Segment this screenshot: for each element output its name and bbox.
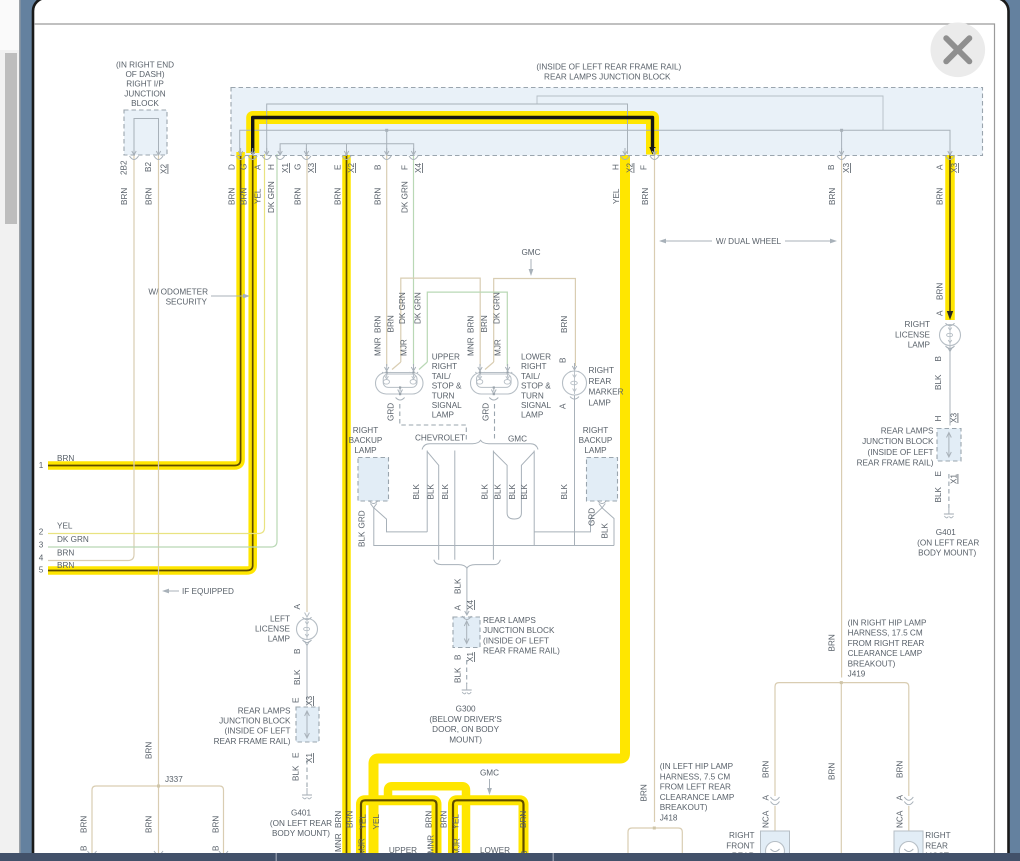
svg-text:A: A xyxy=(293,604,302,610)
right rear junction block bus xyxy=(948,434,950,457)
svg-text:B: B xyxy=(454,654,463,660)
svg-text:BRN: BRN xyxy=(145,188,154,205)
svg-text:X1: X1 xyxy=(466,652,475,662)
svg-text:BLK: BLK xyxy=(454,667,463,683)
svg-text:REAR: REAR xyxy=(925,841,948,850)
svg-text:DK GRN: DK GRN xyxy=(57,535,89,544)
svg-text:X3: X3 xyxy=(842,163,851,173)
svg-text:(IN LEFT HIP LAMP: (IN LEFT HIP LAMP xyxy=(660,762,734,771)
wire: BRN pin G/X3 down to left license lamp xyxy=(306,154,308,612)
svg-text:BLK: BLK xyxy=(293,669,302,685)
svg-text:GMC: GMC xyxy=(521,248,540,257)
svg-text:MNR: MNR xyxy=(427,835,436,854)
wire: BRN pin B down to UPPER lamp MNR xyxy=(386,154,388,366)
annotation: GMC arrow (top) xyxy=(530,259,532,271)
svg-text:RIGHT: RIGHT xyxy=(353,426,378,435)
svg-text:BRN: BRN xyxy=(57,454,74,463)
svg-text:FROM LEFT REAR: FROM LEFT REAR xyxy=(660,783,731,792)
svg-text:RIGHT: RIGHT xyxy=(521,362,546,371)
I/P junction block interior bus xyxy=(134,119,159,155)
svg-text:BLK: BLK xyxy=(934,486,943,502)
rear lamps junction block (top, dashed border) xyxy=(231,88,983,156)
svg-text:MNR: MNR xyxy=(334,833,343,852)
svg-text:YEL: YEL xyxy=(359,814,368,830)
svg-text:TURN: TURN xyxy=(521,391,544,400)
BLK wire from brace to center junction block xyxy=(466,568,468,608)
wires below bottom-right lamp connectors xyxy=(774,806,776,831)
svg-text:B: B xyxy=(293,648,302,654)
svg-text:REAR FRAME RAIL): REAR FRAME RAIL) xyxy=(483,647,560,656)
brace CHEVROLET/GMC (pointing up) xyxy=(422,440,538,449)
svg-text:F: F xyxy=(640,165,649,170)
svg-text:A: A xyxy=(896,795,905,801)
svg-text:REAR LAMPS: REAR LAMPS xyxy=(483,616,536,625)
svg-text:DK GRN: DK GRN xyxy=(493,292,502,324)
highlight: YEL wire pin H (right) down and across to UPPER lamp area xyxy=(374,155,626,854)
svg-text:BLK: BLK xyxy=(292,765,301,781)
svg-text:2B2: 2B2 xyxy=(120,160,129,175)
svg-text:H: H xyxy=(267,164,276,170)
wire: CHEVROLET variant BRN box xyxy=(401,278,480,366)
svg-text:X2: X2 xyxy=(160,164,169,174)
NCA connectors xyxy=(771,797,780,800)
marker lamp A wire down to BLK bus xyxy=(574,394,576,546)
core: BRN wire G / exit 5 xyxy=(48,155,253,571)
node J337 xyxy=(157,785,160,788)
pin connectors, I/P junction block xyxy=(133,148,135,154)
svg-text:REAR: REAR xyxy=(589,377,612,386)
svg-text:GRD: GRD xyxy=(482,403,491,421)
svg-text:B: B xyxy=(827,164,836,170)
pin connectors, top junction block xyxy=(240,148,242,154)
svg-text:LEFT: LEFT xyxy=(270,615,290,624)
svg-text:BACKUP: BACKUP xyxy=(579,436,613,445)
svg-text:BRN: BRN xyxy=(896,761,905,778)
svg-text:DK GRN: DK GRN xyxy=(400,181,409,213)
left rear junction block bus xyxy=(306,712,308,737)
junction block interior bus L1 (A to H-right) xyxy=(267,104,628,154)
svg-text:B: B xyxy=(212,845,221,851)
backup lamp right GRD wire xyxy=(602,508,614,546)
svg-text:STOP &: STOP & xyxy=(521,382,551,391)
right rear junction block (dashed border) xyxy=(937,429,961,462)
svg-text:RIGHT: RIGHT xyxy=(729,831,754,840)
wire: YEL pin A to exit 2 xyxy=(48,154,265,534)
GRD dashed wire LOWER lamp xyxy=(494,404,496,441)
svg-text:W/ DUAL WHEEL: W/ DUAL WHEEL xyxy=(716,237,782,246)
center rear junction block (fill) xyxy=(453,617,480,648)
browser scrollbar track (left strip) xyxy=(0,0,21,861)
right backup lamp right (fill) xyxy=(587,458,618,502)
highlight: BRN wire pin G down to exit 5 xyxy=(48,155,253,571)
scrollbar thumb xyxy=(5,53,17,224)
svg-text:B: B xyxy=(559,357,568,363)
core: BRN wire D / exit 1 xyxy=(48,154,241,466)
svg-text:LAMP: LAMP xyxy=(589,398,612,407)
svg-text:BRN: BRN xyxy=(480,315,489,332)
svg-text:X3: X3 xyxy=(305,696,314,706)
svg-text:BRN: BRN xyxy=(560,316,569,333)
svg-text:BLK: BLK xyxy=(508,483,517,499)
junction block interior bus L3 (H to F) xyxy=(280,144,414,154)
dashed BLK wire to ground G300 xyxy=(466,660,468,684)
svg-text:IF EQUIPPED: IF EQUIPPED xyxy=(182,587,234,596)
lamp: RIGHT LICENSE LAMP xyxy=(940,325,961,346)
svg-text:5: 5 xyxy=(39,566,44,575)
close button xyxy=(931,23,986,78)
wire: DK GRN pin F/X4 down to UPPER lamp MJR xyxy=(413,154,415,366)
svg-text:X3: X3 xyxy=(950,413,959,423)
svg-text:E: E xyxy=(292,752,301,758)
svg-text:X1: X1 xyxy=(950,474,959,484)
svg-text:BRN: BRN xyxy=(57,549,74,558)
svg-text:YEL: YEL xyxy=(254,188,263,204)
core: BRN wire A right, arrow to right license lamp xyxy=(949,155,951,317)
junction block interior tap to pin B right xyxy=(841,130,843,154)
rear lamps junction block (top, fill) xyxy=(231,88,983,156)
svg-text:BLOCK: BLOCK xyxy=(131,99,159,108)
svg-text:REAR LAMPS: REAR LAMPS xyxy=(238,707,291,716)
svg-text:A: A xyxy=(454,605,463,611)
backup lamp right BLK wire xyxy=(534,508,602,532)
svg-text:E: E xyxy=(292,697,301,703)
svg-text:DOOR, ON BODY: DOOR, ON BODY xyxy=(432,725,499,734)
svg-text:RIGHT: RIGHT xyxy=(583,426,608,435)
svg-text:HARNESS, 7.5 CM: HARNESS, 7.5 CM xyxy=(660,772,731,781)
svg-text:BRN: BRN xyxy=(57,561,74,570)
svg-text:RIGHT: RIGHT xyxy=(432,362,457,371)
svg-text:A: A xyxy=(936,310,945,316)
svg-text:NCA: NCA xyxy=(896,810,905,828)
BLK wires under GMC brace xyxy=(492,451,494,560)
svg-text:F: F xyxy=(400,165,409,170)
svg-text:1: 1 xyxy=(39,461,44,470)
svg-text:REAR FRAME RAIL): REAR FRAME RAIL) xyxy=(214,737,291,746)
svg-text:CLEARANCE LAMP: CLEARANCE LAMP xyxy=(660,793,735,802)
highlight: BRN wire pin E down to UPPER lamp MNR xyxy=(342,155,351,854)
svg-text:X2: X2 xyxy=(626,163,635,173)
svg-text:BRN: BRN xyxy=(346,811,355,828)
svg-text:BRN: BRN xyxy=(936,283,945,300)
wire: J419 branches to clearance lamps xyxy=(775,683,909,796)
svg-text:BLK: BLK xyxy=(454,578,463,594)
lamp: UPPER RIGHT TAIL/STOP &amp; TURN SIGNAL LAMP xyxy=(376,373,424,395)
right backup lamp right (dashed border) xyxy=(587,458,618,502)
svg-text:LAMP: LAMP xyxy=(354,446,377,455)
svg-text:GMC: GMC xyxy=(480,769,499,778)
svg-text:LAMP: LAMP xyxy=(521,411,544,420)
svg-text:BLK: BLK xyxy=(358,531,367,547)
svg-text:MARKER: MARKER xyxy=(589,388,624,397)
svg-text:G401: G401 xyxy=(936,528,956,537)
svg-text:BLK: BLK xyxy=(427,483,436,499)
svg-text:BRN: BRN xyxy=(519,811,528,828)
svg-text:BLK: BLK xyxy=(481,483,490,499)
svg-text:YEL: YEL xyxy=(57,522,73,531)
svg-text:BRN: BRN xyxy=(374,188,383,205)
svg-text:BRN: BRN xyxy=(828,763,837,780)
brace merging BLK wires xyxy=(434,560,501,569)
svg-text:GRD: GRD xyxy=(588,508,597,526)
svg-text:A: A xyxy=(762,795,771,801)
svg-text:J419: J419 xyxy=(848,670,866,679)
wire: DK GRN variant box to UPPER MJR / LOWER MJR xyxy=(427,292,507,366)
right I/P junction block (dashed border) xyxy=(124,110,167,155)
svg-text:X3: X3 xyxy=(950,163,959,173)
svg-text:MJR: MJR xyxy=(453,838,462,855)
right rear junction block (fill) xyxy=(937,429,961,462)
ground G401 left xyxy=(306,788,308,795)
svg-text:J337: J337 xyxy=(165,775,183,784)
svg-text:BRN: BRN xyxy=(425,811,434,828)
svg-text:A: A xyxy=(254,164,263,170)
svg-text:(ON LEFT REAR: (ON LEFT REAR xyxy=(270,819,332,828)
svg-text:W/ ODOMETER: W/ ODOMETER xyxy=(148,288,208,297)
wire: BRN pin F (right) down to J418 xyxy=(654,154,656,822)
svg-text:BRN: BRN xyxy=(240,188,249,205)
svg-text:MJR: MJR xyxy=(358,838,367,855)
svg-text:BRN: BRN xyxy=(828,188,837,205)
svg-text:X4: X4 xyxy=(414,163,423,173)
core: LOWER lamp connector bus (BRN) xyxy=(453,800,524,854)
backup lamp left connector xyxy=(369,501,378,504)
left rear junction block (fill) xyxy=(296,707,319,742)
svg-text:X2: X2 xyxy=(347,163,356,173)
svg-text:NCA: NCA xyxy=(762,810,771,828)
svg-text:REAR FRAME RAIL): REAR FRAME RAIL) xyxy=(857,459,934,468)
svg-text:LAMP: LAMP xyxy=(432,411,455,420)
center rear junction block bus xyxy=(466,622,468,643)
svg-text:MJR: MJR xyxy=(400,339,409,356)
svg-text:FRONT: FRONT xyxy=(726,841,754,850)
annotation: W/ DUAL WHEEL arrows xyxy=(664,240,712,242)
wire: BRN pin B (right) down to J419 xyxy=(841,154,843,678)
svg-text:G: G xyxy=(293,164,302,170)
wire: J418 branches xyxy=(628,828,682,854)
wire: J337 branch left and right xyxy=(92,786,224,854)
svg-text:GRD: GRD xyxy=(358,510,367,528)
svg-text:RIGHT: RIGHT xyxy=(905,320,930,329)
left rear junction block (dashed border) xyxy=(296,707,319,742)
svg-text:SECURITY: SECURITY xyxy=(166,298,208,307)
svg-text:BLK: BLK xyxy=(934,374,943,390)
svg-text:A: A xyxy=(936,164,945,170)
svg-text:B: B xyxy=(374,164,383,170)
junction block interior tap to pin B xyxy=(386,130,388,154)
svg-text:BLK: BLK xyxy=(412,483,421,499)
lamp: RIGHT FRONT REAR clearance xyxy=(761,831,790,861)
lamp pin connectors xyxy=(386,364,388,370)
svg-text:SIGNAL: SIGNAL xyxy=(521,401,551,410)
ground G300 xyxy=(466,683,468,690)
svg-text:MJR: MJR xyxy=(494,339,503,356)
svg-text:(ON LEFT REAR: (ON LEFT REAR xyxy=(917,538,979,547)
svg-text:BREAKOUT): BREAKOUT) xyxy=(848,659,896,668)
right license lamp BLK wire to right junction block xyxy=(949,346,951,426)
svg-text:MNR: MNR xyxy=(374,337,383,356)
svg-text:REAR LAMPS JUNCTION BLOCK: REAR LAMPS JUNCTION BLOCK xyxy=(544,73,671,82)
svg-text:(INSIDE OF LEFT REAR FRAME RAI: (INSIDE OF LEFT REAR FRAME RAIL) xyxy=(536,63,681,72)
svg-text:STOP &: STOP & xyxy=(432,382,462,391)
dashed BLK wire to ground G401 left xyxy=(306,760,308,788)
highlight: LOWER lamp connector bus xyxy=(453,800,524,854)
svg-text:B: B xyxy=(934,356,943,362)
wire: BRN center continues below J337 xyxy=(158,786,160,854)
svg-text:TAIL/: TAIL/ xyxy=(432,372,452,381)
svg-text:G401: G401 xyxy=(291,809,311,818)
highlight: BRN wire pin A (right) down to right license lamp xyxy=(945,155,955,320)
svg-text:LAMP: LAMP xyxy=(268,635,291,644)
right backup lamp left (dashed border) xyxy=(358,458,389,502)
svg-text:BRN: BRN xyxy=(145,742,154,759)
backup lamp right connector xyxy=(598,501,607,504)
svg-text:MNR: MNR xyxy=(467,337,476,356)
svg-text:BRN: BRN xyxy=(374,316,383,333)
svg-text:CHEVROLET: CHEVROLET xyxy=(415,434,465,443)
core: black internal bus G to F xyxy=(253,118,653,155)
right backup lamp left (fill) xyxy=(358,458,389,502)
lamp: RIGHT REAR MARKER LAMP xyxy=(563,371,587,395)
svg-text:LICENSE: LICENSE xyxy=(895,330,931,339)
svg-text:X3: X3 xyxy=(307,163,316,173)
svg-text:(IN RIGHT END: (IN RIGHT END xyxy=(116,61,174,70)
svg-text:G300: G300 xyxy=(456,705,476,714)
core: UPPER lamp connector bus (BRN) xyxy=(361,800,437,854)
annotation: W/ ODOMETER SECURITY arrow xyxy=(211,295,246,297)
backup lamp left GRD wire xyxy=(374,508,614,546)
svg-text:BRN: BRN xyxy=(293,188,302,205)
svg-text:RIGHT: RIGHT xyxy=(925,831,950,840)
svg-text:BLK: BLK xyxy=(560,483,569,499)
svg-text:B: B xyxy=(80,845,89,851)
svg-text:BRN: BRN xyxy=(641,188,650,205)
svg-text:E: E xyxy=(934,471,943,477)
svg-text:BRN: BRN xyxy=(333,188,342,205)
svg-text:BRN: BRN xyxy=(467,316,476,333)
wire: BRN from I/P pin 2B2 to exit 4 xyxy=(48,154,134,561)
svg-text:BRN: BRN xyxy=(80,816,89,833)
junction block interior bus L2 (D to A-right) xyxy=(240,130,950,154)
svg-text:H: H xyxy=(612,164,621,170)
svg-text:DK GRN: DK GRN xyxy=(267,181,276,213)
svg-text:X1: X1 xyxy=(305,753,314,763)
left license lamp BLK wire to left junction block xyxy=(306,646,308,704)
svg-text:MOUNT): MOUNT) xyxy=(449,735,482,744)
svg-text:GRD: GRD xyxy=(387,403,396,421)
svg-text:BODY MOUNT): BODY MOUNT) xyxy=(272,829,330,838)
svg-text:G: G xyxy=(240,164,249,170)
svg-text:BRN: BRN xyxy=(640,784,649,801)
svg-text:BODY MOUNT): BODY MOUNT) xyxy=(918,549,976,558)
svg-text:RIGHT I/P: RIGHT I/P xyxy=(126,80,164,89)
svg-text:BRN: BRN xyxy=(334,811,343,828)
lamp: LOWER RIGHT TAIL/STOP &amp; TURN SIGNAL LAMP xyxy=(471,373,519,395)
svg-text:3: 3 xyxy=(39,541,44,550)
svg-text:2: 2 xyxy=(39,528,44,537)
svg-text:LAMP: LAMP xyxy=(908,341,931,350)
svg-text:4: 4 xyxy=(39,554,44,563)
highlight: YEL branch to LOWER lamp MJR xyxy=(388,786,466,854)
svg-text:FROM RIGHT REAR: FROM RIGHT REAR xyxy=(848,639,925,648)
svg-text:CLEARANCE LAMP: CLEARANCE LAMP xyxy=(848,649,923,658)
svg-text:HARNESS, 17.5 CM: HARNESS, 17.5 CM xyxy=(848,629,923,638)
svg-text:SIGNAL: SIGNAL xyxy=(432,401,462,410)
svg-text:JUNCTION: JUNCTION xyxy=(124,89,165,98)
svg-text:BLK: BLK xyxy=(494,483,503,499)
highlight: BRN wire pin D down to exit 1 xyxy=(48,152,241,466)
svg-text:UPPER: UPPER xyxy=(432,353,460,362)
svg-text:GMC: GMC xyxy=(508,435,527,444)
node J419 xyxy=(840,681,843,684)
svg-text:(IN RIGHT HIP LAMP: (IN RIGHT HIP LAMP xyxy=(848,618,927,627)
core: BRN wire E to bottom xyxy=(346,154,348,854)
svg-text:BRN: BRN xyxy=(762,761,771,778)
svg-text:BREAKOUT): BREAKOUT) xyxy=(660,803,708,812)
svg-text:BLK: BLK xyxy=(520,483,529,499)
bottom toolbar bar xyxy=(0,853,1020,861)
svg-text:D: D xyxy=(228,164,237,170)
svg-text:YEL: YEL xyxy=(452,814,461,830)
highlight: UPPER lamp connector bus xyxy=(361,800,437,854)
svg-text:(BELOW DRIVER'S: (BELOW DRIVER'S xyxy=(429,715,502,724)
right I/P junction block (fill) xyxy=(124,110,167,155)
svg-text:YEL: YEL xyxy=(372,814,381,830)
svg-text:LOWER: LOWER xyxy=(521,353,551,362)
svg-text:BLK: BLK xyxy=(601,522,610,538)
svg-text:DK GRN: DK GRN xyxy=(414,292,423,324)
svg-text:TAIL/: TAIL/ xyxy=(521,372,541,381)
backup lamp left BLK wire xyxy=(374,508,427,532)
svg-text:BRN: BRN xyxy=(212,816,221,833)
GRD dashed wire UPPER lamp xyxy=(400,404,467,440)
highlight: junction block internal bus G to F xyxy=(253,118,653,155)
wire: GMC variant BRN box to LOWER MNR / marker lamp xyxy=(494,279,576,367)
svg-text:(INSIDE OF LEFT: (INSIDE OF LEFT xyxy=(868,448,934,457)
wire: BRN from I/P pin B2 down to J337 xyxy=(158,154,160,786)
svg-text:OF DASH): OF DASH) xyxy=(125,70,164,79)
svg-text:BRN: BRN xyxy=(828,634,837,651)
svg-text:BLK: BLK xyxy=(441,483,450,499)
dashed BLK wire to ground G401 right xyxy=(948,474,950,508)
svg-text:REAR LAMPS: REAR LAMPS xyxy=(881,427,934,436)
svg-text:X4: X4 xyxy=(466,600,475,610)
svg-text:H: H xyxy=(934,416,943,422)
svg-text:BRN: BRN xyxy=(936,188,945,205)
svg-text:X1: X1 xyxy=(281,163,290,173)
annotation: GMC arrow (bottom) xyxy=(489,779,491,790)
annotation: IF EQUIPPED arrow xyxy=(167,590,179,592)
BLK wires under CHEVROLET brace xyxy=(426,451,428,532)
svg-text:TURN: TURN xyxy=(432,391,455,400)
svg-text:(INSIDE OF LEFT: (INSIDE OF LEFT xyxy=(225,727,291,736)
svg-text:BRN: BRN xyxy=(120,188,129,205)
svg-text:BRN: BRN xyxy=(145,816,154,833)
svg-text:YEL: YEL xyxy=(612,188,621,204)
svg-text:BACKUP: BACKUP xyxy=(349,436,383,445)
wire: DK GRN pin H to exit 3 xyxy=(48,154,277,547)
junction block interior faint top line xyxy=(537,96,883,130)
svg-text:BRN: BRN xyxy=(440,811,449,828)
svg-text:JUNCTION BLOCK: JUNCTION BLOCK xyxy=(219,717,291,726)
svg-text:J418: J418 xyxy=(660,813,678,822)
svg-text:BRN: BRN xyxy=(228,188,237,205)
lamp: LEFT LICENSE LAMP xyxy=(297,619,318,640)
svg-text:JUNCTION BLOCK: JUNCTION BLOCK xyxy=(483,626,555,635)
lamp: RIGHT REAR MOST clearance xyxy=(894,831,923,861)
J337 leg connectors xyxy=(88,851,97,855)
svg-text:(INSIDE OF LEFT: (INSIDE OF LEFT xyxy=(483,636,549,645)
svg-text:DK GRN: DK GRN xyxy=(398,292,407,324)
